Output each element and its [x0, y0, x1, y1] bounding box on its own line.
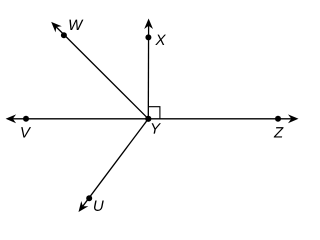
node U dot	[86, 195, 92, 201]
wire: ray Y to U (down-left)	[83, 119, 149, 206]
wire: ray Y to X (vertical up)	[147, 26, 149, 119]
right angle mark at Y between ray YX and ray YZ	[149, 107, 160, 119]
arrowhead up (toward X)	[144, 19, 153, 30]
label U	[94, 200, 104, 210]
label Z	[274, 127, 284, 137]
wire: horizontal line V to Z through Y	[13, 118, 292, 120]
node V dot	[23, 116, 29, 122]
label V	[21, 127, 31, 137]
label X	[155, 35, 166, 45]
arrowhead left (toward V)	[6, 114, 17, 123]
wire: ray Y to W (up-left)	[56, 27, 148, 119]
arrowhead down-left (toward U)	[75, 201, 88, 215]
node Y (vertex dot)	[145, 116, 151, 122]
node Z dot	[275, 116, 281, 122]
label Y	[152, 123, 161, 133]
node X dot	[145, 34, 151, 40]
arrowhead right (toward Z)	[288, 114, 299, 123]
arrowhead up-left (toward W)	[48, 19, 62, 33]
label W	[69, 20, 83, 30]
node W dot	[61, 32, 67, 38]
